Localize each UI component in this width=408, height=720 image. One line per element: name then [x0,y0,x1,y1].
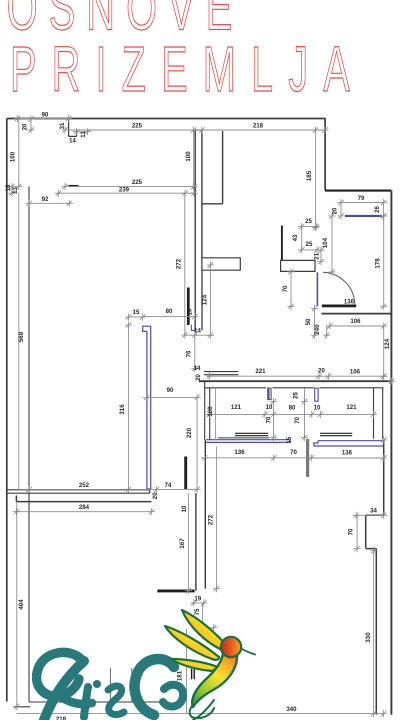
dim 14 junction [185,334,211,336]
svg-text:43: 43 [292,234,299,241]
svg-text:178: 178 [375,258,382,269]
wall band hall-east [281,260,315,271]
dim 252 line [19,488,157,490]
svg-text:106: 106 [350,318,361,325]
wall bath north [325,190,392,192]
svg-text:316: 316 [119,404,126,415]
dim 70a line [273,402,275,438]
wall right jog [366,440,384,715]
dim 124 hall line [209,265,211,335]
svg-text:272: 272 [175,258,182,269]
svg-text:90: 90 [167,387,174,394]
logo RisCo script text [37,652,183,720]
dim rooms line [210,413,374,415]
wall top inner [65,129,325,131]
wall partition b [374,388,383,439]
svg-text:74: 74 [165,482,172,489]
svg-text:PRIZEMLJA: PRIZEMLJA [10,35,365,106]
blue stub b [315,388,318,401]
svg-text:19: 19 [194,595,201,602]
svg-text:79: 79 [358,195,365,202]
svg-text:124: 124 [201,294,208,305]
wall bigroom left [204,440,206,589]
svg-text:21: 21 [314,252,321,259]
dim 136b line [311,457,383,459]
svg-text:20: 20 [195,374,202,381]
svg-text:181: 181 [177,670,184,681]
wc door leaf blue [316,272,318,306]
dim 25b line [302,249,317,251]
svg-text:136: 136 [344,299,355,306]
svg-text:225: 225 [132,179,143,186]
wall y501 [16,496,151,502]
svg-text:13: 13 [12,187,19,194]
title line PRIZEMLJA [10,35,365,106]
svg-text:10: 10 [266,404,273,411]
dim 43 line [301,227,303,250]
svg-text:100: 100 [9,151,16,162]
sill line left [218,437,269,439]
svg-text:18: 18 [5,184,12,191]
dim 20 win [340,203,342,216]
svg-text:124: 124 [384,338,391,349]
wall band main [199,380,391,382]
wc door arc [323,272,355,304]
svg-text:80: 80 [166,308,173,315]
logo hummingbird [165,610,255,720]
svg-text:20: 20 [332,207,339,214]
svg-text:100: 100 [185,151,192,162]
dim 34 line [356,514,384,516]
counter right [320,433,352,435]
svg-text:218: 218 [56,716,67,720]
svg-text:220: 220 [186,427,193,438]
wall band y490 [7,490,150,493]
svg-text:20: 20 [22,123,29,130]
svg-text:239: 239 [119,186,130,193]
dim 19 line [194,602,204,604]
dim 284 line [16,511,151,513]
blue sill left [206,440,290,443]
dim 104 line [331,216,333,272]
dim 76 line [194,335,196,368]
dim 100 right line [193,130,195,187]
wall stub left2 [69,185,79,187]
svg-text:121: 121 [346,404,357,411]
dim 272 left line [184,193,186,335]
svg-text:252: 252 [79,482,90,489]
svg-text:31: 31 [59,122,66,129]
dim 218 line [202,129,325,131]
dim 80 line [143,316,195,318]
dim 185 line [315,130,317,228]
svg-text:25: 25 [306,241,313,248]
wall band inner [204,387,384,389]
dim 74 line [157,488,198,490]
svg-text:14: 14 [194,365,201,372]
dim 181 line [186,629,188,714]
svg-text:185: 185 [306,170,313,181]
dim 31 stub [77,131,88,133]
dim 404 line [16,502,18,706]
svg-text:225: 225 [132,122,143,129]
svg-text:15: 15 [133,309,140,316]
svg-text:240: 240 [314,324,321,335]
svg-text:100: 100 [207,406,214,417]
dim 106b line [329,375,384,377]
wall top outer [7,118,326,120]
wall hall column [202,130,223,204]
wall stub grey [306,439,309,477]
svg-text:11: 11 [80,131,87,138]
wall stub top-left [69,119,77,136]
wall central [194,130,196,332]
svg-text:92: 92 [42,196,49,203]
svg-text:70: 70 [266,416,273,423]
svg-text:20: 20 [318,367,325,374]
dim 167 line [187,493,189,591]
dim 225b line [65,186,194,188]
dim 225 top line [65,129,194,131]
svg-text:167: 167 [179,538,186,549]
svg-text:15: 15 [286,436,293,443]
svg-text:70: 70 [290,449,297,456]
wall left inner [28,187,30,703]
dim 21 line [320,250,322,261]
wall x196 [195,493,197,591]
wall rooms left [205,381,210,440]
svg-text:25: 25 [293,392,300,399]
svg-text:14: 14 [194,328,201,335]
svg-text:221: 221 [255,368,266,375]
svg-text:218: 218 [253,122,264,129]
svg-text:70: 70 [294,416,301,423]
dim 26 win [383,203,385,216]
dim 70b line [304,389,306,438]
wall central lower [201,204,203,258]
blue stub a [268,388,271,400]
stair double wall [204,372,239,375]
dim 50 line [314,309,316,336]
dim 20c line [319,375,329,377]
svg-text:26: 26 [374,206,381,213]
dim 124 right line [383,326,385,376]
blue bracket [191,325,194,331]
svg-text:404: 404 [18,599,25,610]
svg-text:34: 34 [370,508,377,515]
svg-text:14: 14 [69,137,76,144]
wall bar bottom [157,589,194,592]
wall corridor south [322,313,392,315]
svg-text:136: 136 [342,449,353,456]
svg-text:20: 20 [152,492,159,499]
svg-text:340: 340 [286,706,297,713]
svg-text:568: 568 [18,331,25,342]
door lines bottom-left [110,668,131,702]
dim 568 line [18,193,20,490]
svg-text:10: 10 [181,505,188,512]
wall right outer [390,191,392,715]
wc sill thick [322,305,356,308]
dim 330 line [373,551,375,714]
wall bottom inner2 [14,706,30,708]
window top-right blue [345,215,382,217]
dimension ticks [8,115,395,717]
svg-text:70: 70 [282,285,289,292]
dim 221 line [210,375,319,377]
door jamb bottom [192,669,195,679]
wall bottom inner [29,701,168,703]
dim 25a line [302,226,317,228]
dim 20 cor line [326,325,328,335]
door leaf hall [281,226,283,262]
svg-text:121: 121 [231,404,242,411]
title line OSNOVE [7,0,244,44]
svg-text:25: 25 [305,218,312,225]
svg-text:10: 10 [187,308,194,315]
svg-text:75: 75 [194,608,201,615]
dim 100c line [215,388,217,440]
svg-text:330: 330 [365,632,372,643]
dim 92 line [29,202,69,204]
dim 220 line [196,397,198,489]
wall bar thick mid [187,288,190,326]
svg-text:80: 80 [289,405,296,412]
dim 15 line [129,316,143,318]
dim 20 bracket [30,119,32,130]
svg-text:272: 272 [207,514,214,525]
wall top-right step [324,119,326,191]
dim 90b line [147,396,198,398]
svg-text:70: 70 [348,528,355,535]
dim 100 left line [18,119,20,187]
dim 316 line [128,325,130,489]
dim 340 line [17,713,384,715]
dim 272b line [216,446,218,588]
sliding door blue [143,326,151,489]
svg-text:50: 50 [305,318,312,325]
svg-text:90: 90 [42,111,49,118]
svg-text:106: 106 [350,368,361,375]
dim 70 wc line [290,272,292,307]
dim 239 line [59,192,195,194]
svg-text:136: 136 [234,449,245,456]
dim 106 top line [330,325,384,327]
dim 136 line [205,457,312,459]
svg-text:104: 104 [322,237,329,248]
dim 75 line [202,603,204,629]
svg-text:284: 284 [79,504,90,511]
wall bar hall [202,258,240,270]
wall left outer [6,119,8,702]
dim 90 line [18,118,69,120]
dim left small [11,187,13,194]
svg-text:76: 76 [186,350,193,357]
dim 79 line [341,202,384,204]
svg-text:10: 10 [314,405,321,412]
dim 70c line [356,515,358,548]
counter left [235,433,268,435]
wall bar thick left [184,457,187,490]
wall partition a [268,388,270,400]
wall central face2 [201,270,203,330]
blue sill right [314,441,384,446]
dim 178 line [383,216,385,306]
